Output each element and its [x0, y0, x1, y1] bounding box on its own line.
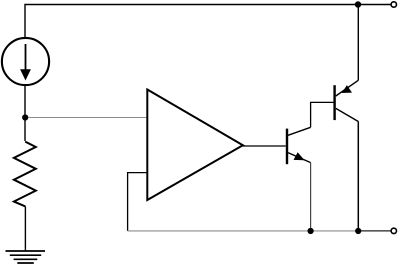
wire: Q1 collector up and over to Q2 base — [311, 102, 334, 127]
node A: top rail junction dot — [355, 1, 361, 7]
wire: feedback from emitter rail to op-amp inverting input — [128, 173, 147, 231]
current source I1 arrow — [25, 44, 27, 71]
transistor Q1 emitter with arrow — [288, 153, 311, 163]
resistor R1 zigzag — [14, 142, 36, 207]
node D: collector/bottom-rail junction dot — [355, 228, 361, 234]
terminal: top output open circle — [391, 2, 396, 7]
wire: op-amp output to Q1 base — [243, 145, 286, 147]
wire: Q2 emitter up to top rail — [357, 5, 359, 81]
terminal: bottom output open circle — [391, 228, 396, 233]
current source I1 circle — [2, 38, 49, 85]
node B: junction dot (source / resistor / op-amp input) — [22, 114, 28, 120]
wire: bottom rail, collector junction to terminal — [358, 230, 391, 232]
wire: top rail from current source to output terminal — [25, 5, 391, 39]
transistor Q2 collector — [336, 108, 359, 121]
op-amp U1 triangle — [147, 90, 243, 201]
wire: current source bottom to node B and resistor top — [24, 85, 26, 141]
transistor Q2 (PNP) base bar — [333, 85, 335, 120]
transistor Q1 collector — [288, 127, 311, 135]
wire: node B to op-amp noninverting input — [28, 117, 147, 119]
wire: bottom rail to output terminal — [128, 230, 358, 232]
transistor Q1 (NPN) base bar — [286, 129, 288, 165]
ground symbol — [6, 251, 46, 263]
wire: Q2 collector down to bottom rail — [357, 122, 359, 232]
node C: emitter/bottom-rail junction dot — [308, 228, 314, 234]
wire: Q1 emitter down to bottom rail — [310, 163, 312, 231]
transistor Q2 emitter with arrow pointing to base — [336, 80, 359, 96]
wire: resistor bottom to ground — [24, 206, 26, 251]
